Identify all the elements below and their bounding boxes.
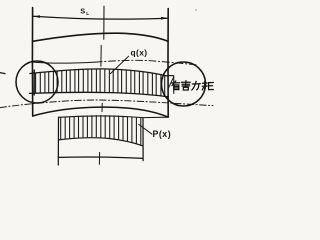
svg-text:q(x): q(x)	[131, 47, 148, 57]
wire right extension/edge line of upper plate	[167, 9, 169, 118]
char 力	[192, 83, 200, 85]
wire thickened plate edge inside left circle	[33, 70, 35, 95]
node stray scan dash at left margin	[0, 73, 5, 74]
node centerline tick crossing bottom edge	[101, 103, 103, 111]
svg-text:P(x): P(x)	[153, 129, 172, 139]
svg-text:S: S	[80, 7, 85, 16]
wire bottom edge of upper hatch band q(x)	[30, 92, 169, 96]
wire upper sheet centerline dash-dot right part	[95, 60, 196, 65]
node centerline tick at bottom dimension	[98, 152, 100, 164]
node dimension line S_L	[33, 16, 168, 19]
node centerline tick top (crosses dim line and top arc)	[103, 6, 105, 39]
weld seam box inside right circle	[168, 76, 174, 94]
wire right edge of lower block	[142, 118, 144, 160]
wire bottom edge arc of upper plate	[33, 107, 169, 117]
node label 有害力矩 (drawn strokes)	[171, 81, 213, 91]
node weld circle left	[16, 61, 58, 103]
wire leader line to P(x)	[139, 124, 152, 134]
weld diagonal inside right circle	[168, 77, 173, 88]
wire top edge arc of upper plate	[33, 33, 168, 41]
node centerline tick mid-upper	[100, 45, 102, 66]
char 有	[171, 82, 179, 84]
wire top edge of lower hatch band P(x)	[59, 116, 169, 118]
node arrowhead left of S_L dimension	[33, 15, 40, 18]
node weld circle right	[162, 62, 206, 106]
char 矩	[202, 82, 207, 84]
wire bottom edge arc of lower hatch band P(x)	[59, 138, 144, 146]
node stray scan dot top right	[195, 9, 197, 11]
node arrowhead right of S_L dimension	[161, 17, 168, 20]
svg-text:L: L	[86, 11, 89, 17]
wire upper sheet centerline solid left part	[31, 62, 95, 63]
wire left edge of lower block	[57, 117, 59, 165]
wire left extension/edge line of upper plate	[31, 8, 33, 117]
wire hatch lines of distributed load P(x)	[61, 115, 141, 144]
wire leader line to q(x)	[110, 56, 128, 73]
char 害	[185, 81, 187, 82]
node bottom dimension line	[58, 157, 143, 158]
wire hatch lines of distributed load q(x)	[36, 69, 165, 96]
wire lower sheet centerline dash-dot arc	[0, 100, 213, 108]
wire top edge of upper hatch band q(x)	[30, 69, 168, 76]
